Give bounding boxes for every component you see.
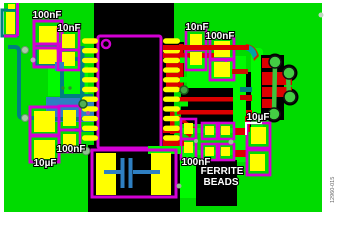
- capacitor C7 10uF bottom pad: [250, 154, 265, 171]
- bright copper pour top-right: [187, 56, 246, 88]
- capacitor C9 100nF bottom pad: [184, 142, 193, 153]
- svg-text:10nF: 10nF: [57, 23, 80, 34]
- via left 2: [22, 115, 29, 122]
- big capacitor C8 right pad: [151, 153, 171, 195]
- red fills between right pin bars: [166, 63, 180, 67]
- IC U1 left pins: [82, 38, 98, 140]
- red trace over IC right pin row10: [163, 128, 182, 133]
- green stubs right of IC pins: [180, 58, 189, 64]
- green link trace through ferrite bead FB2: [196, 150, 234, 155]
- red diagonal traces from IC right pins to black band: [178, 117, 194, 136]
- teal trace C1 to C2 to pin row: [57, 57, 93, 61]
- red trace 1 in black band: [177, 97, 233, 102]
- capacitor C2 10nF top pad: [62, 34, 75, 48]
- black block behind FERRITE BEADS text: [196, 160, 237, 206]
- capacitor C9 silkscreen boxes: [181, 119, 196, 139]
- blue bottom-layer pour region: [46, 97, 97, 122]
- capacitor C4 100nF bottom pad: [63, 134, 76, 150]
- big capacitor C8 left pad: [96, 153, 116, 195]
- capacitor C4 silkscreen boxes: [59, 106, 80, 130]
- capacitor C5 silkscreen boxes: [186, 30, 206, 50]
- bright copper pour right of big cap: [176, 146, 196, 198]
- red stub between strips: [240, 95, 252, 100]
- ferrite bead FB2 right pad: [221, 147, 230, 156]
- magenta corner at strip A top: [220, 60, 226, 76]
- capacitor C3 silkscreen boxes: [30, 107, 59, 135]
- capacitor C6 100nF bottom pad: [214, 62, 230, 77]
- ferrite bead FB1 left pad: [205, 126, 214, 135]
- pink dot: [31, 58, 36, 63]
- svg-text:100nF: 100nF: [206, 31, 235, 42]
- red traces on ferrite blob: [262, 58, 275, 68]
- teal stub between strips: [240, 87, 252, 92]
- connector pad left edge: [6, 12, 15, 34]
- IC U1 silkscreen outline: [98, 36, 161, 148]
- capacitor C2 10nF bottom pad: [62, 52, 75, 66]
- red trace C6 bottom pad to trace column: [232, 69, 248, 74]
- capacitor C6 silkscreen boxes: [210, 37, 234, 60]
- blue capacitor symbol on C8: [104, 158, 160, 188]
- svg-text:100nF: 100nF: [33, 10, 62, 21]
- capacitor C7 10uF top pad bottom-right: [251, 127, 266, 144]
- ferrite bead FB1 silkscreen boxes: [202, 123, 217, 139]
- black trace column between strips: [246, 72, 251, 127]
- teal lining inside C1 lower pad box: [36, 45, 58, 65]
- big capacitor C8 silkscreen outline: [92, 150, 176, 197]
- red bits in trace column: [246, 95, 252, 101]
- svg-text:BEADS: BEADS: [203, 177, 238, 188]
- yellow strip top-left edge: [8, 4, 15, 9]
- svg-text:10µF: 10µF: [247, 112, 270, 123]
- ferrite bead FB1 right pad: [221, 126, 230, 135]
- ferrite bead FB2 left pad: [205, 147, 214, 156]
- capacitor C5 10nF bottom pad: [190, 52, 202, 65]
- teal trace left edge vertical: [8, 47, 34, 118]
- ferrite bead FB2 silkscreen boxes: [202, 144, 217, 160]
- via top-left 1: [22, 47, 29, 54]
- purple dot in blue region: [86, 111, 90, 115]
- capacitor C3 10uF bottom pad: [34, 140, 55, 159]
- teal outline around connector pad at left edge: [2, 10, 17, 36]
- capacitor C7 silkscreen boxes: [247, 123, 270, 148]
- via top-right corner: [319, 13, 324, 18]
- teal traces bottom-left caps to pins: [55, 119, 94, 130]
- red trace 2 in black band: [177, 110, 233, 115]
- ferrite component black blob right side: [261, 54, 299, 123]
- black band mid-right: [181, 88, 233, 124]
- via in blue region: [79, 100, 87, 108]
- red vertical trace over right pins rows 9-11: [170, 112, 175, 134]
- bright copper pour vertical strip A: [233, 88, 246, 162]
- red trace pin1 to C5 C6 to ferrite blob (overlay): [163, 45, 249, 50]
- teal trace box mid-left: [60, 63, 93, 96]
- capacitor C9 100nF top pad: [184, 123, 193, 134]
- svg-text:100nF: 100nF: [57, 144, 86, 155]
- capacitor C2 silkscreen boxes: [58, 29, 79, 50]
- via in pour right of big cap: [177, 184, 182, 189]
- capacitor C1 100nF top pad: [39, 26, 58, 45]
- capacitor C1 100nF bottom pad: [39, 47, 58, 64]
- white outline fragment on C7 top box: [246, 123, 262, 135]
- teal strip behind left pins: [80, 46, 85, 102]
- via below left pins: [82, 147, 90, 155]
- capacitor C6 100nF top pad top-right: [214, 41, 230, 57]
- via between bead rows: [229, 140, 234, 145]
- svg-text:12960-015: 12960-015: [330, 177, 336, 203]
- IC U1 right pins: [163, 38, 180, 140]
- svg-text:FERRITE: FERRITE: [201, 166, 244, 177]
- big capacitor black region bottom-center: [88, 145, 180, 212]
- red trace right of pin row 11: [163, 140, 184, 146]
- capacitor C5 10nF top pad top-right: [190, 34, 202, 47]
- green link trace through ferrite bead FB1: [180, 128, 234, 133]
- capacitor C1 silkscreen boxes: [34, 21, 62, 48]
- red traces top-right of IC: [179, 44, 184, 88]
- small dots in pour: [61, 86, 64, 89]
- capacitor C4 100nF top pad: [63, 110, 76, 126]
- PCB board copper pour background: [4, 3, 322, 212]
- capacitor C3 10uF top pad: [34, 111, 55, 132]
- green plated holes of ferrite blob: [268, 56, 296, 120]
- IC U1 pin-1 marker: [102, 40, 110, 48]
- svg-text:10µF: 10µF: [34, 158, 57, 169]
- via in black channel: [180, 86, 188, 94]
- black channel right of IC: [174, 42, 184, 92]
- red stub ferrite bead FB2 to C7 bottom pad: [233, 150, 248, 157]
- red trace from C6 to blob with cyan bend: [230, 45, 249, 50]
- blue stub near C1: [55, 62, 64, 71]
- via left of bead row2: [194, 139, 198, 143]
- magenta outline of connector pad: [4, 3, 18, 36]
- red stub ferrite bead FB1 to C7 top pad: [233, 128, 248, 135]
- bright copper pour vertical strip B: [251, 48, 263, 127]
- IC U1 black body region: [94, 3, 174, 150]
- bright copper pour left-mid: [48, 66, 88, 96]
- pour tab above cap right pad: [148, 146, 181, 154]
